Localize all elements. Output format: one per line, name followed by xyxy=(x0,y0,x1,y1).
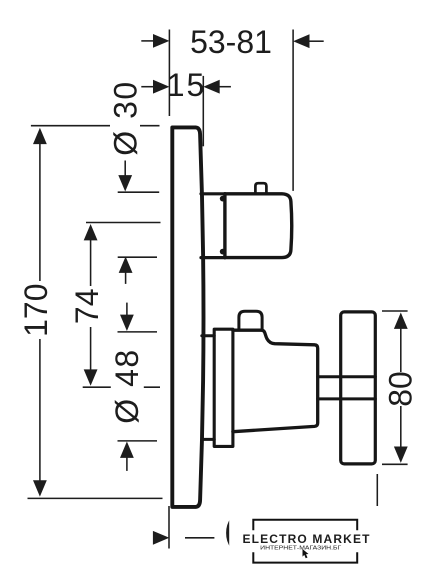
lower escutcheon xyxy=(214,329,233,446)
upper escutcheon stub top xyxy=(201,192,225,195)
dim 74 bottom ext tick xyxy=(83,386,160,388)
dim 80 top ext line xyxy=(382,310,408,312)
arrow dia48 up xyxy=(120,442,134,458)
lower stub bottom xyxy=(202,438,214,441)
arrow 80 up xyxy=(394,313,408,329)
upper knob corner blob top xyxy=(220,196,226,202)
logo box bottom bracket xyxy=(253,552,357,562)
upper knob back edge xyxy=(223,194,226,258)
dia48 top tick xyxy=(118,331,158,333)
valve body lower xyxy=(233,330,318,432)
arrow bottom dim left xyxy=(153,531,169,545)
bottom dim ext line below handle bar xyxy=(376,474,378,506)
svg-text:Ø 30: Ø 30 xyxy=(107,80,143,155)
handle stem line bottom xyxy=(318,397,376,400)
dim 15 left arrow tail xyxy=(141,86,153,88)
dim 170 top ext line xyxy=(31,125,160,127)
dia48 bottom tick xyxy=(118,440,158,442)
svg-text:80: 80 xyxy=(382,371,418,407)
bottom dim arrow tail xyxy=(185,537,214,539)
bottom dim ext line at plate xyxy=(168,506,170,549)
text 80 xyxy=(384,372,414,406)
wall plate xyxy=(172,127,203,507)
text 74 xyxy=(72,286,100,327)
dim 170 bottom ext line xyxy=(28,497,163,499)
arrow 80 down xyxy=(394,447,408,463)
logo white backdrop xyxy=(229,512,372,574)
arrow 15 right xyxy=(203,80,219,94)
dia30 bottom tick xyxy=(118,256,157,258)
dim 53-81 left arrow tail xyxy=(141,40,153,42)
dia30 top tick xyxy=(118,191,160,193)
arrow 74 top xyxy=(84,224,98,240)
arrow 170 top xyxy=(33,128,47,144)
logo box top bracket xyxy=(253,520,357,530)
dia48 bottom arrow tail xyxy=(126,458,128,471)
dim 170 line xyxy=(39,143,41,481)
svg-text:170: 170 xyxy=(18,284,54,337)
upper escutcheon stub bottom xyxy=(201,256,225,259)
dia48 top arrow tail xyxy=(126,303,128,316)
cross handle bar xyxy=(341,312,376,464)
svg-text:74: 74 xyxy=(69,289,105,325)
upper knob corner blob bottom xyxy=(220,249,226,255)
arrow 15 left xyxy=(153,80,169,94)
dim 74 top ext line xyxy=(86,222,161,224)
text 170 xyxy=(22,281,50,339)
svg-text:ELECTRO MARKET: ELECTRO MARKET xyxy=(243,532,371,546)
arrow 74 bottom xyxy=(84,369,98,385)
knob top button xyxy=(255,183,266,193)
ext line left of 53-81 and 15 xyxy=(168,30,170,117)
arrow 53-81 right xyxy=(293,34,309,48)
dia30 top arrow tail xyxy=(124,161,126,177)
lever dome on lower body xyxy=(239,311,262,330)
arrow dia30 up xyxy=(119,257,133,273)
svg-text:15: 15 xyxy=(167,67,207,103)
text dia30 xyxy=(110,80,140,157)
arrow dia48 down xyxy=(120,315,134,331)
dim 80 bottom ext line xyxy=(382,463,408,465)
handle stem line top xyxy=(318,375,376,378)
svg-text:Ø 48: Ø 48 xyxy=(109,348,145,423)
dim 15 right arrow tail xyxy=(219,86,231,88)
mouse cursor xyxy=(303,549,309,558)
dim 80 line top part xyxy=(400,328,402,372)
arrow dia30 down xyxy=(118,175,132,191)
ext line right of 15 xyxy=(202,76,204,146)
arrow 170 bottom xyxy=(33,480,47,496)
lower stub top xyxy=(202,334,214,337)
dim 74 line xyxy=(90,239,92,371)
arrow 53-81 left xyxy=(153,34,169,48)
thermostat knob body U1 xyxy=(225,194,292,258)
dim 53-81 right arrow tail xyxy=(309,40,324,42)
svg-text:ИНТЕРНЕТ-МАГАЗИН.БГ: ИНТЕРНЕТ-МАГАЗИН.БГ xyxy=(260,545,342,551)
dim 80 line bottom part xyxy=(400,406,402,448)
svg-text:53-81: 53-81 xyxy=(190,24,272,60)
dia30 bottom arrow tail xyxy=(125,272,127,284)
ext line right of 53-81 xyxy=(292,30,294,191)
text dia48 xyxy=(111,345,144,429)
